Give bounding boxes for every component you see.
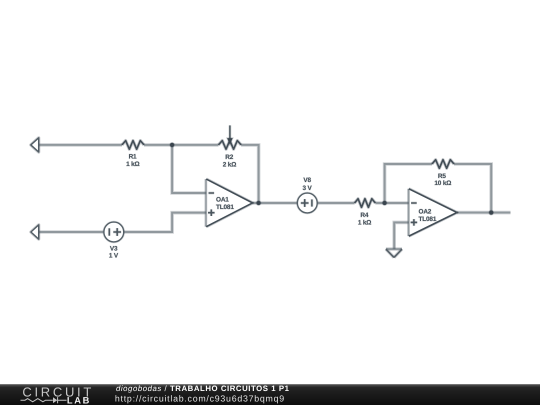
svg-text:1 V: 1 V <box>109 253 119 260</box>
svg-text:2 kΩ: 2 kΩ <box>223 161 236 168</box>
svg-text:V8: V8 <box>303 177 311 184</box>
svg-text:OA2: OA2 <box>419 209 432 216</box>
svg-text:R4: R4 <box>360 212 368 219</box>
svg-text:TL081: TL081 <box>419 216 437 223</box>
svg-text:LAB: LAB <box>67 395 91 405</box>
svg-text:R1: R1 <box>129 153 137 160</box>
svg-text:10 kΩ: 10 kΩ <box>434 180 451 187</box>
svg-text:V3: V3 <box>110 245 118 252</box>
svg-text:1 kΩ: 1 kΩ <box>126 161 139 168</box>
svg-text:3 V: 3 V <box>303 185 313 192</box>
svg-text:TL081: TL081 <box>216 204 234 211</box>
svg-text:R2: R2 <box>225 154 233 161</box>
svg-text:1 kΩ: 1 kΩ <box>358 220 371 227</box>
svg-text:OA1: OA1 <box>216 197 229 204</box>
svg-text:http://circuitlab.com/c93u6d37: http://circuitlab.com/c93u6d37bqmq9 <box>115 393 285 403</box>
svg-text:diogobodas / TRABALHO CIRCUITO: diogobodas / TRABALHO CIRCUITOS 1 P1 <box>116 384 290 393</box>
svg-text:R5: R5 <box>438 173 446 180</box>
